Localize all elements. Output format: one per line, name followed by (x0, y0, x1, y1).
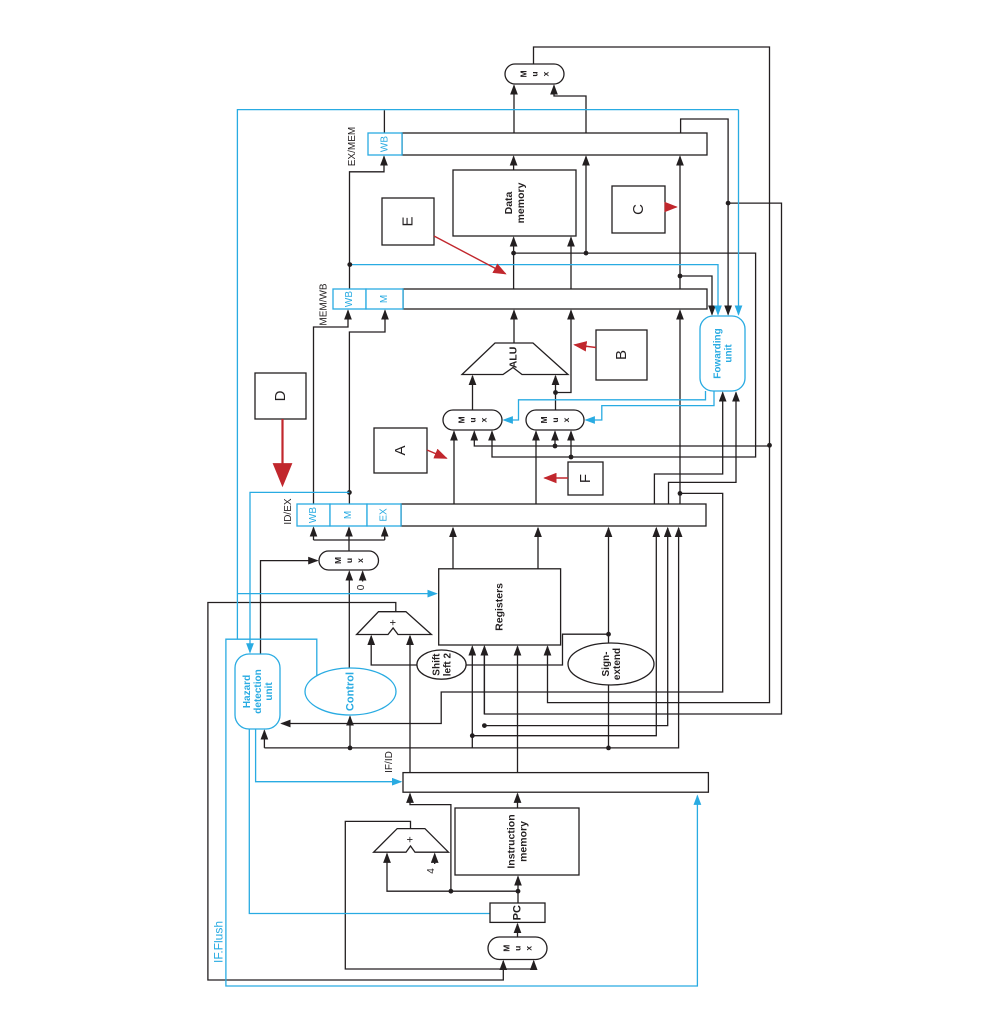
svg-text:C: C (630, 204, 647, 215)
svg-text:x: x (355, 558, 365, 563)
wire: EX/MEM.Rd tap to forwarding unit (680, 276, 712, 315)
wire: ForwardA select to ALU mux A (504, 391, 706, 420)
svg-text:4: 4 (426, 868, 437, 874)
svg-text:D: D (272, 390, 289, 401)
red arrow from E (434, 236, 506, 274)
PC register (490, 903, 545, 922)
wire: ALU result to EX/MEM register (513, 311, 515, 344)
wire: M control ID/EX to MEM/WB register (349, 311, 385, 505)
svg-text:PC: PC (512, 905, 524, 920)
wire: read data 2 to ID/EX register (537, 528, 539, 569)
svg-text:M: M (502, 945, 512, 952)
wire: write data EX/MEM to data memory (570, 238, 572, 290)
svg-text:u: u (550, 417, 560, 422)
svg-text:0: 0 (356, 584, 367, 590)
svg-text:x: x (561, 417, 571, 422)
wire: ALU mux A output to ALU input (472, 376, 474, 410)
svg-text:F: F (577, 474, 594, 483)
wire: WB mux output feedback to register write data (534, 47, 770, 703)
wire: constant 4 to adder (434, 854, 436, 864)
wire: hazard detection output to control mux select (261, 561, 318, 654)
control unit (305, 668, 396, 715)
svg-text:Control: Control (345, 672, 357, 711)
wire: ID/EX.Rt to forwarding unit (669, 393, 737, 505)
wire: opcode to control unit (349, 717, 351, 748)
ALU (462, 343, 568, 375)
label box D (255, 373, 306, 419)
svg-text:M: M (379, 295, 390, 303)
wire: sign-extend output to ID/EX register (608, 528, 610, 643)
svg-text:x: x (541, 71, 551, 76)
wire: address EX/MEM to data memory (513, 238, 515, 290)
PC+4 adder (374, 829, 449, 853)
wire: ID/EX.Rt tap to hazard detection unit (282, 493, 723, 723)
svg-text:u: u (513, 946, 523, 951)
label box A (374, 428, 427, 473)
wire: read data 1 to ID/EX register (452, 528, 454, 569)
mux M3 (ALU input B forward) (526, 410, 584, 430)
wire: instruction fields to hazard detection unit (263, 731, 265, 748)
wire: Rs field to ID/EX register (472, 528, 656, 736)
pipeline register ID/EX (297, 504, 706, 526)
wire: RegWrite control (WB) distribution (383, 110, 385, 133)
svg-text:Sign-extend: Sign-extend (601, 648, 623, 680)
wire: MEM/WB ALU result to WB mux (554, 86, 586, 134)
svg-text:+: + (405, 836, 417, 842)
svg-text:WB: WB (308, 507, 319, 523)
wire: zero constant to control mux (362, 572, 364, 582)
wire: RegWrite to register file (237, 593, 436, 595)
svg-text:IF/ID: IF/ID (384, 751, 395, 773)
svg-text:WB: WB (344, 291, 355, 307)
wire: immediate tap to shift left 2 (466, 634, 608, 665)
wire: PC to instruction memory (517, 877, 519, 903)
wire: PC value to +4 adder (387, 854, 518, 891)
wire: IF/ID write enable from hazard detection unit (256, 729, 401, 782)
wire: branch target to PC mux (208, 603, 503, 981)
red arrow from F (545, 477, 569, 479)
red arrow from B (575, 345, 597, 348)
wire: ALU result bypass to MEM/WB register (585, 157, 587, 254)
label box C (612, 186, 665, 233)
svg-text:x: x (479, 417, 489, 422)
branch adder (357, 612, 432, 635)
red arrow from D (281, 419, 283, 484)
wire: store data to EX/MEM register (556, 311, 572, 393)
wire: write register number vertical (483, 647, 485, 715)
wire: Rt field to ID/EX register (484, 528, 667, 726)
svg-text:EX/MEM: EX/MEM (347, 127, 358, 166)
wire: shift left 2 output to branch adder (371, 636, 417, 665)
svg-text:+: + (388, 619, 400, 625)
wire: data memory read data to MEM/WB register (513, 157, 515, 171)
wire: PC value to IF/ID register (410, 794, 451, 891)
svg-text:u: u (468, 417, 478, 422)
svg-text:EX: EX (379, 508, 390, 522)
svg-text:A: A (392, 445, 409, 455)
svg-text:Registers: Registers (494, 583, 506, 631)
svg-text:WB: WB (380, 136, 391, 152)
svg-text:ID/EX: ID/EX (283, 498, 294, 524)
wire: Rd field ID/EX to EX/MEM register (679, 311, 681, 505)
svg-text:M: M (343, 511, 354, 519)
wire: ForwardB select to ALU mux B (586, 391, 714, 420)
wire: destination register number to register write port (484, 203, 781, 714)
svg-text:B: B (613, 350, 630, 360)
data memory (453, 170, 576, 236)
shift left 2 (417, 650, 466, 679)
svg-text:M: M (457, 416, 467, 423)
svg-text:Instructionmemory: Instructionmemory (506, 814, 530, 868)
label box B (596, 330, 647, 380)
mux M2 (ALU input A forward) (443, 410, 502, 430)
wire: PCWrite from hazard detection unit (249, 729, 489, 914)
wire: instruction bus from IF/ID (264, 528, 678, 748)
register file (439, 569, 561, 645)
wire: MEM/WB memory data to WB mux (513, 86, 515, 134)
svg-text:M: M (519, 70, 529, 77)
wire: MEM/WB register number control to forwarding unit (350, 265, 718, 315)
red arrow from A (427, 450, 447, 458)
mux M5 (PC source) (488, 937, 547, 960)
wire: WB control MEM/WB to EX/MEM register (350, 157, 385, 290)
wire: read register 1 number from IF/ID (517, 647, 519, 773)
wire: EX/MEM ALU result forward to ALU mux B (570, 432, 572, 458)
label box E (382, 198, 434, 245)
wire: read register 2 number from IF/ID (471, 647, 473, 748)
svg-text:Shiftleft 2: Shiftleft 2 (432, 652, 454, 676)
mux M4 (control bubble) (319, 551, 379, 570)
wire: PC mux output to PC (517, 924, 519, 937)
wire: read data 1 ID/EX to ALU mux A (453, 432, 455, 505)
forwarding unit (700, 316, 745, 391)
svg-text:u: u (530, 71, 540, 76)
wire: control mux output to ID/EX WB (314, 540, 385, 551)
hazard detection unit (235, 654, 280, 729)
svg-text:IF.Flush: IF.Flush (212, 921, 226, 963)
svg-text:MEM/WB: MEM/WB (319, 283, 330, 326)
svg-text:M: M (539, 416, 549, 423)
wire: instruction memory output to IF/ID (517, 794, 519, 808)
wire: WB forward data to ALU mux A (474, 432, 769, 447)
wire: instruction to sign-extend (608, 685, 610, 748)
wire: ID/EX.MemRead to hazard detection unit (250, 492, 349, 652)
svg-text:u: u (344, 558, 354, 563)
wire: WB forward data to ALU mux B (554, 432, 556, 447)
wire: EX/MEM ALU result forward to ALU mux A (492, 253, 756, 457)
wire: PC value IF/ID to branch adder (409, 636, 411, 773)
wire: control unit output to mux (348, 572, 350, 668)
pipeline register EX/MEM (top bar) (368, 133, 707, 155)
wire: IF.Flush from control to IF/ID (226, 639, 698, 986)
node: Rd branch to write-register line (726, 201, 731, 206)
pipeline register IF/ID (403, 773, 708, 793)
wire: Rd field MEM/WB to forwarding unit (681, 119, 729, 315)
red arrow from C (665, 206, 677, 208)
wire: WB control ID/EX to MEM/WB register (314, 311, 349, 505)
instruction memory (455, 808, 579, 875)
wire: PC+4 to PC mux (345, 821, 533, 969)
sign extend (568, 643, 654, 685)
label box F (568, 462, 603, 495)
node: WB feedback joins forwarding line (767, 443, 772, 448)
pipeline register MEM/WB (second bar) (333, 289, 707, 309)
wire: ALU mux B output to ALU input (555, 376, 557, 410)
wire: read data 2 ID/EX to ALU mux B (535, 432, 537, 505)
svg-text:E: E (400, 216, 417, 226)
svg-text:x: x (524, 946, 534, 951)
svg-text:M: M (333, 557, 343, 564)
mux M1 (write-back select) (505, 64, 564, 84)
wire: Rd field EX/MEM to MEM/WB register (679, 157, 681, 290)
svg-text:ALU: ALU (508, 347, 520, 369)
wire: ID/EX.Rs to forwarding unit (654, 393, 722, 505)
